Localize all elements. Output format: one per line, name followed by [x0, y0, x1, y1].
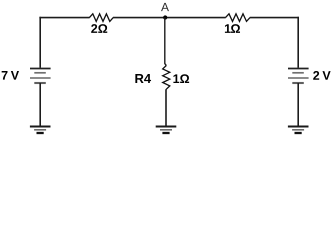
resistor R4 (vertical zigzag)	[163, 66, 170, 90]
ground (right, under V2)	[288, 127, 309, 134]
node A junction dot	[163, 15, 167, 19]
svg-text:1Ω: 1Ω	[173, 72, 190, 86]
wire right vertical (corner down to V2)	[297, 17, 299, 68]
wire left vertical (corner down to V1)	[39, 17, 41, 68]
reference label R4	[135, 71, 152, 86]
value label 2 V	[313, 69, 332, 83]
svg-text:2Ω: 2Ω	[91, 22, 108, 36]
battery V1 7V	[30, 69, 51, 84]
wire top-right horizontal (1Ω to V2 corner)	[250, 17, 299, 19]
value label 1Ω (top)	[224, 22, 240, 36]
resistor 2Ω (top left zigzag)	[89, 14, 113, 22]
battery V2 2V	[288, 69, 309, 84]
svg-text:R4: R4	[135, 71, 152, 86]
svg-text:1Ω: 1Ω	[224, 22, 240, 36]
svg-text:7 V: 7 V	[1, 69, 20, 83]
svg-text:A: A	[161, 0, 169, 14]
ground (middle, under R4)	[156, 127, 177, 134]
node label A	[161, 0, 169, 14]
svg-text:2 V: 2 V	[313, 69, 332, 83]
wire node A down to R4 (with jog)	[165, 18, 167, 66]
value label 2Ω	[91, 22, 108, 36]
wire below V1	[39, 83, 41, 126]
resistor 1Ω (top right zigzag)	[226, 14, 251, 22]
value label 1Ω (middle)	[173, 72, 190, 86]
ground (left, under V1)	[30, 127, 51, 134]
wire below R4	[165, 89, 167, 126]
wire below V2	[297, 83, 299, 126]
wire top middle (2Ω to node A to 1Ω)	[113, 17, 226, 19]
wire top-left horizontal (V1 top to 2Ω)	[39, 17, 89, 19]
value label 7 V	[1, 69, 20, 83]
